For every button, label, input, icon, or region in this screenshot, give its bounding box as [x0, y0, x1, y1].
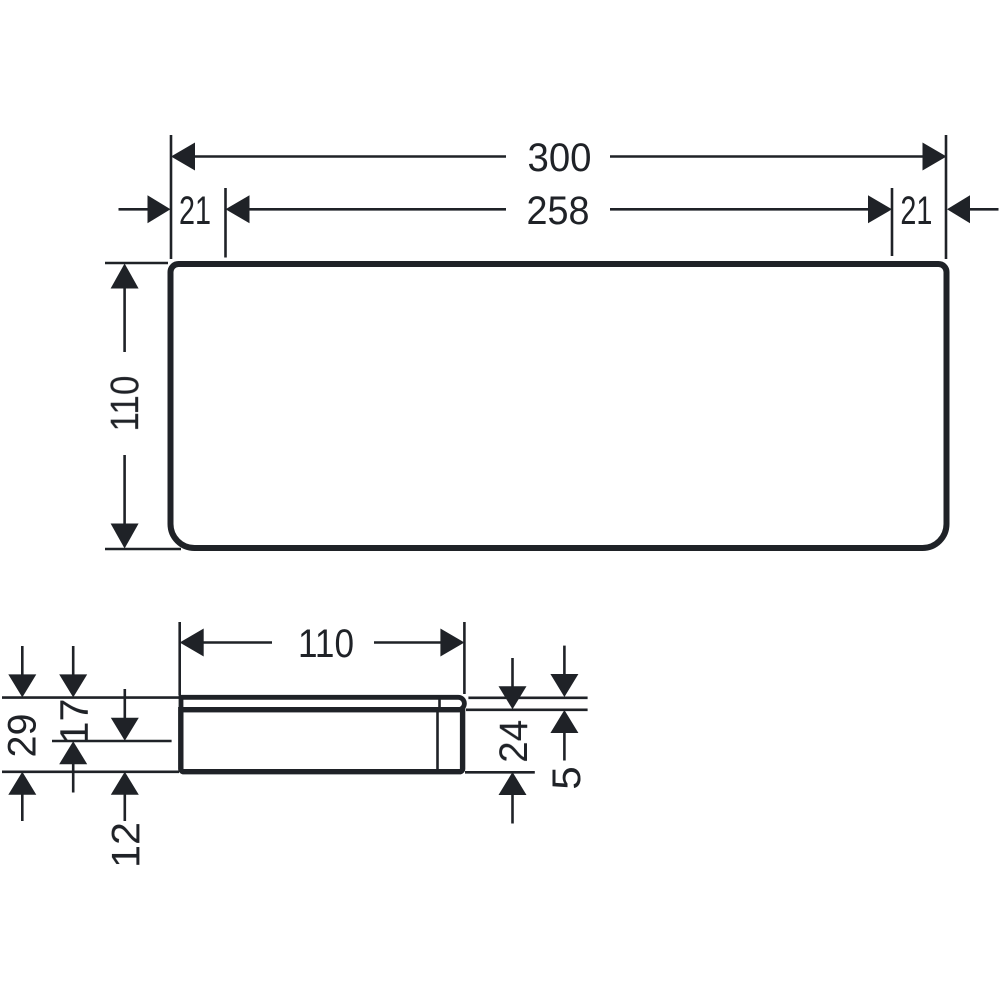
wire line B left [52, 740, 172, 743]
arrow 24 top down [499, 686, 527, 709]
wire 17 stem top [72, 646, 75, 675]
wire 12 stem bottom [124, 795, 127, 822]
arrow 110b left [180, 629, 204, 657]
arrow 300 left [171, 143, 195, 171]
arrow 5 bottom up [550, 710, 578, 733]
wire 110b dim line left part [203, 641, 272, 644]
wire line plate-bottom right [466, 708, 588, 711]
wire right 21 stub [969, 208, 999, 211]
wire 110b extension left [178, 622, 181, 695]
svg-text:5: 5 [545, 766, 589, 790]
svg-text:21: 21 [900, 189, 932, 233]
wire 5 stem top [563, 646, 566, 675]
wire 110 bottom extension [105, 548, 181, 551]
arrow left 21 pointing right [148, 195, 171, 223]
arrow 24 bottom up [499, 772, 527, 795]
wire 12 stem top [124, 689, 127, 718]
arrow 17 bottom up [59, 741, 87, 764]
arrow right 21 pointing left [947, 195, 970, 223]
wire 110 top extension [105, 262, 168, 265]
plate divider line [438, 700, 441, 708]
svg-text:300: 300 [528, 136, 592, 180]
wire 24 stem top [511, 658, 514, 687]
wire line A left [2, 696, 179, 699]
arrow 17 top down [59, 674, 87, 697]
bracket body side view [181, 710, 463, 772]
wire 24 stem bottom [511, 795, 514, 824]
arrow 12 bottom up [111, 772, 139, 795]
svg-text:258: 258 [527, 189, 590, 233]
svg-text:110: 110 [103, 376, 147, 432]
body inner line [436, 712, 439, 769]
arrow 110b right [440, 629, 464, 657]
arrow 300 right [923, 143, 947, 171]
wire extension line left of 300 dim [170, 135, 173, 259]
arrow 110 up [111, 264, 139, 289]
wire extension line right of 300 dim [945, 135, 948, 259]
shelf plate side view [181, 697, 464, 709]
svg-text:110: 110 [298, 622, 354, 666]
shelf front view outline [171, 264, 947, 548]
svg-text:21: 21 [179, 189, 211, 233]
wire 110 dim stem lower [123, 455, 126, 525]
wire line C right [465, 771, 535, 774]
wire 258 dim line right part [610, 208, 870, 211]
wire 29 stem top [21, 646, 24, 675]
wire 300 dim line left part [194, 155, 506, 158]
arrow 258 right [868, 195, 892, 223]
wire 110 dim stem upper [123, 287, 126, 352]
wire 110b dim line right part [374, 641, 441, 644]
wire 5 stem bottom [563, 733, 566, 761]
arrow 110 down [111, 524, 139, 549]
arrow 29 bottom up [8, 772, 36, 795]
svg-text:17: 17 [53, 699, 97, 745]
wire 110b extension right [463, 622, 466, 694]
arrow 258 left [226, 195, 250, 223]
arrow 12 top down [111, 718, 139, 741]
wire 17 stem bottom [72, 764, 75, 793]
arrow 5 top down [550, 674, 578, 697]
wire line C left [2, 770, 179, 773]
wire 258 dim line left part [248, 208, 506, 211]
wire left 21 stub [119, 208, 150, 211]
wire 29 stem bottom [21, 795, 24, 822]
svg-text:12: 12 [104, 822, 148, 868]
wire 300 dim line right part [610, 155, 923, 158]
svg-text:29: 29 [0, 714, 44, 758]
wire line A right [468, 696, 587, 699]
svg-text:24: 24 [492, 720, 536, 763]
arrow 29 top down [8, 674, 36, 697]
wire extension line right of 258 dim [891, 188, 894, 256]
wire extension line left of 258 dim [224, 188, 227, 258]
